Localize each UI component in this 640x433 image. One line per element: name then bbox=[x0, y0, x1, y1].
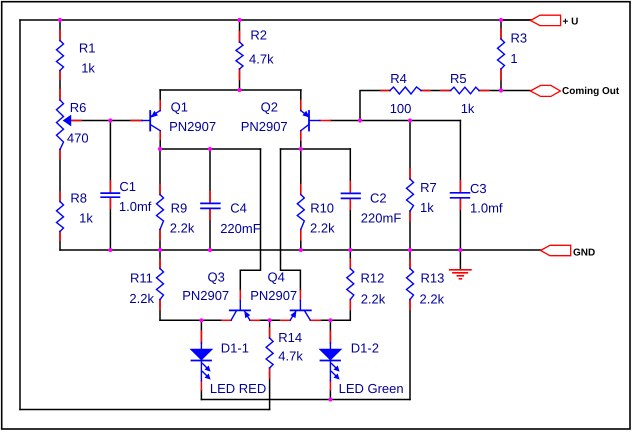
svg-text:2.2k: 2.2k bbox=[170, 221, 195, 236]
pin C1.1 bbox=[109, 181, 111, 192]
node D1-1 top bbox=[199, 318, 203, 322]
node C4 top bbox=[208, 147, 212, 151]
wire R4 feed corner x=360 bbox=[360, 91, 390, 121]
resistor R3 body bbox=[498, 39, 505, 69]
svg-text:220mF: 220mF bbox=[361, 211, 402, 226]
wire Q1-Q2 collector rail y=90 bbox=[160, 89, 301, 91]
resistor R1 body bbox=[57, 41, 64, 71]
wire Q1 emitter top x=160.2 bbox=[159, 90, 161, 111]
wire bottom R14 return y=409.5 bbox=[20, 409, 270, 411]
svg-text:R7: R7 bbox=[420, 180, 437, 195]
svg-text:2.2k: 2.2k bbox=[129, 291, 154, 306]
svg-text:C1: C1 bbox=[119, 179, 136, 194]
blue component bodies bbox=[57, 39, 505, 381]
resistor R7 body bbox=[407, 179, 414, 211]
node R9 top bbox=[158, 147, 162, 151]
svg-text:1.0mf: 1.0mf bbox=[119, 199, 152, 214]
wire R12 bottom x=350.3 bbox=[349, 300, 351, 321]
pin Q2.c bbox=[300, 131, 302, 140]
svg-text:LED Green: LED Green bbox=[339, 381, 404, 396]
pin D1-1.k bbox=[200, 381, 202, 390]
resistor R11 body bbox=[157, 269, 164, 300]
pin D1-1.a bbox=[200, 331, 202, 343]
wire R6-R8 link x=60 bbox=[59, 150, 61, 202]
pin Q3.left bbox=[222, 319, 231, 321]
pin Q2.base bbox=[320, 120, 330, 122]
wire R2 bottom pin x=239.5 bbox=[239, 69, 241, 90]
pin R14.2 bbox=[269, 368, 271, 378]
wire C4 top x=210 bbox=[209, 149, 211, 203]
svg-text:220mF: 220mF bbox=[220, 221, 261, 236]
svg-text:1k: 1k bbox=[420, 200, 434, 215]
pin R13.2 bbox=[409, 300, 411, 310]
pin C4.2 bbox=[209, 209, 211, 219]
pin Q1.base bbox=[131, 120, 142, 122]
svg-text:Q4: Q4 bbox=[268, 270, 285, 285]
pin R3.1 bbox=[500, 29, 502, 39]
svg-text:PN2907: PN2907 bbox=[169, 119, 216, 134]
wire C3 bottom x=460.4 bbox=[459, 199, 461, 250]
pin R8.2 bbox=[59, 232, 61, 241]
wire R11 bottom x=160 bbox=[159, 300, 161, 321]
ground symbol bbox=[450, 270, 471, 279]
resistor R10 body bbox=[297, 195, 304, 230]
pin C2.1 bbox=[349, 181, 351, 192]
transistor Q3 bbox=[230, 301, 250, 321]
wire R11 top x=160 bbox=[159, 250, 161, 269]
node gnd bbox=[458, 248, 462, 252]
wire LED bottom rail y=399.5 bbox=[201, 399, 410, 401]
node R10 bottom bbox=[299, 248, 303, 252]
pin R9.2 bbox=[159, 230, 161, 241]
svg-text:R1: R1 bbox=[79, 40, 96, 55]
node R7 bottom bbox=[408, 248, 412, 252]
wire R1-R6 link x=60 bbox=[59, 71, 61, 101]
wire R2 top pin x=239.5 bbox=[239, 20, 241, 42]
pin Q1.e bbox=[159, 101, 161, 111]
svg-text:1: 1 bbox=[510, 51, 517, 66]
connector GND bbox=[541, 245, 571, 255]
wire Q2 base to node y=120.5 bbox=[330, 120, 460, 122]
pin R10.2 bbox=[300, 230, 302, 241]
svg-text:Q2: Q2 bbox=[261, 100, 278, 115]
pin R3.2 bbox=[500, 69, 502, 80]
pin Q4.base bbox=[299, 291, 301, 301]
svg-text:R2: R2 bbox=[250, 28, 267, 43]
svg-text:100: 100 bbox=[390, 101, 412, 116]
svg-text:1k: 1k bbox=[79, 210, 93, 225]
wire D1-2 anode x=330.4 bbox=[329, 320, 331, 343]
wire emitter rail y=320.3 bbox=[160, 319, 222, 321]
svg-text:1k: 1k bbox=[81, 60, 95, 75]
pin R4.1 bbox=[381, 90, 390, 92]
svg-text:4.7k: 4.7k bbox=[278, 349, 303, 364]
wire Q4-D1-2 segment y=320.3 bbox=[321, 319, 351, 321]
pin R13.1 bbox=[409, 259, 411, 269]
pin R2.2 bbox=[239, 69, 241, 80]
svg-text:R11: R11 bbox=[130, 270, 153, 285]
wire R10 top x=300.8 bbox=[300, 149, 302, 195]
resistor R12 body bbox=[347, 269, 354, 300]
pin C1.2 bbox=[109, 198, 111, 209]
svg-text:Q1: Q1 bbox=[171, 100, 188, 115]
wire R5 to coming-out node y=90.5 bbox=[479, 90, 530, 92]
pin Q2.e bbox=[300, 101, 302, 111]
wire Q2 group rail y=149 bbox=[281, 148, 351, 150]
pin R8.1 bbox=[59, 192, 61, 202]
svg-text:D1-2: D1-2 bbox=[351, 340, 379, 355]
svg-text:Q3: Q3 bbox=[208, 270, 225, 285]
node R4 tap bbox=[358, 118, 362, 122]
diode D1-1 bbox=[191, 343, 211, 381]
node D1-2 top bbox=[328, 318, 332, 322]
pin R6.2 bbox=[59, 150, 61, 160]
wire D1-2 cathode x=330.4 bbox=[329, 390, 331, 400]
svg-text:1.0mf: 1.0mf bbox=[470, 200, 503, 215]
svg-text:2.2k: 2.2k bbox=[420, 291, 445, 306]
wire R13 top x=410 bbox=[409, 250, 411, 269]
node R2 bottom bbox=[237, 88, 241, 92]
pin R5.2 bbox=[479, 90, 489, 92]
node R2 top bbox=[237, 18, 241, 22]
svg-text:C3: C3 bbox=[470, 181, 487, 196]
pin R6.1 bbox=[59, 90, 61, 101]
svg-text:470: 470 bbox=[67, 130, 89, 145]
node D1-2 bottom bbox=[328, 397, 332, 401]
pin Q1.c bbox=[159, 131, 161, 140]
pin C4.1 bbox=[209, 191, 211, 202]
wire gnd rail y=250 bbox=[60, 249, 541, 251]
wire R6 wiper to Q1 base y=120.5 bbox=[71, 120, 143, 122]
wire Q1 collector bottom x=160.2 bbox=[159, 131, 161, 149]
wire Q2 emitter top x=300.8 bbox=[300, 90, 302, 111]
pin R7.2 bbox=[409, 211, 411, 221]
svg-text:R12: R12 bbox=[361, 271, 385, 286]
node R1 top bbox=[58, 18, 62, 22]
resistor R8 body bbox=[57, 202, 64, 232]
wire +U connector stub y=20 bbox=[501, 19, 531, 21]
pin C3.2 bbox=[459, 199, 461, 210]
pin R9.1 bbox=[159, 185, 161, 195]
wire R12 top x=350.3 bbox=[349, 250, 351, 269]
node R14 top bbox=[268, 318, 272, 322]
wire R8 bottom to gnd rail x=60 bbox=[59, 232, 61, 251]
pin Q3.base bbox=[239, 291, 241, 301]
pin Q4.right bbox=[310, 319, 320, 321]
svg-text:GND: GND bbox=[573, 247, 595, 258]
node C2 bottom bbox=[348, 248, 352, 252]
svg-text:Coming Out: Coming Out bbox=[562, 86, 620, 97]
wire C1 bottom x=110.4 bbox=[109, 198, 111, 250]
wire C2 top x=350.3 bbox=[349, 149, 351, 193]
pin R1.2 bbox=[59, 71, 61, 80]
svg-text:+ U: + U bbox=[563, 17, 579, 28]
node C1 top bbox=[108, 118, 112, 122]
resistor R14 body bbox=[266, 338, 273, 368]
svg-text:4.7k: 4.7k bbox=[249, 52, 274, 67]
wire R3 top pin x=501 bbox=[500, 20, 502, 39]
capacitor C2 plates bbox=[342, 193, 361, 198]
wire left feedback loop x=20 bbox=[19, 20, 21, 410]
wire ground symbol stem x=460.4 bbox=[459, 250, 461, 269]
pin R14.1 bbox=[269, 328, 271, 338]
node R3 top bbox=[499, 18, 503, 22]
red pin overlays bbox=[60, 29, 501, 390]
pin R4.2 bbox=[421, 90, 430, 92]
connector +U bbox=[531, 15, 561, 25]
wire C3 top x=460.4 bbox=[459, 121, 461, 192]
svg-text:C4: C4 bbox=[230, 201, 247, 216]
svg-text:R10: R10 bbox=[310, 201, 334, 216]
pin R5.1 bbox=[441, 90, 451, 92]
pin C3.1 bbox=[459, 181, 461, 192]
pin R11.1 bbox=[159, 259, 161, 269]
resistor R6 body (pot) bbox=[57, 100, 64, 150]
wire C1 top x=110.4 bbox=[109, 121, 111, 193]
wire C4 bottom x=210 bbox=[209, 209, 211, 250]
wire R10 bottom x=300.8 bbox=[300, 230, 302, 251]
transistor Q1 bbox=[142, 111, 160, 131]
svg-text:D1-1: D1-1 bbox=[221, 340, 249, 355]
connector Coming Out bbox=[530, 85, 560, 96]
svg-text:R4: R4 bbox=[390, 71, 407, 86]
svg-text:PN2907: PN2907 bbox=[241, 119, 288, 134]
svg-text:PN2907: PN2907 bbox=[250, 288, 297, 303]
svg-text:R8: R8 bbox=[70, 191, 87, 206]
resistor R13 body bbox=[407, 269, 414, 300]
wire R9 top x=160 bbox=[159, 149, 161, 195]
node coming out bbox=[499, 88, 503, 92]
transistor Q4 bbox=[290, 301, 311, 321]
node R7 top bbox=[408, 118, 412, 122]
svg-text:R6: R6 bbox=[70, 100, 87, 115]
wire Q2 collector bottom x=300.8 bbox=[300, 131, 302, 149]
svg-text:PN2907: PN2907 bbox=[182, 288, 229, 303]
pin Q3.right bbox=[250, 319, 260, 321]
resistor R2 body bbox=[236, 42, 243, 69]
wire R3 bottom pin x=501 bbox=[500, 69, 502, 91]
pin D1-2.k bbox=[329, 381, 331, 390]
wire Q1 group rail y=149 bbox=[160, 148, 261, 150]
resistor R5 body bbox=[451, 87, 480, 94]
wire Q4 base feed jog x=280.5 bbox=[281, 149, 301, 291]
svg-text:2.2k: 2.2k bbox=[310, 221, 335, 236]
node C4 bottom bbox=[208, 248, 212, 252]
pin D1-2.a bbox=[329, 331, 331, 343]
node R10 top bbox=[299, 147, 303, 151]
pin R12.1 bbox=[349, 259, 351, 269]
svg-text:R9: R9 bbox=[171, 201, 188, 216]
pin R12.2 bbox=[349, 300, 351, 310]
node R9 bottom bbox=[158, 248, 162, 252]
svg-text:C2: C2 bbox=[370, 191, 387, 206]
pin R6.wiper bbox=[71, 120, 82, 122]
capacitor C1 plates bbox=[101, 193, 119, 197]
capacitor C3 plates bbox=[451, 193, 470, 198]
wire R4-R5 link y=90.5 bbox=[421, 90, 451, 92]
svg-text:R5: R5 bbox=[450, 71, 467, 86]
svg-text:LED RED: LED RED bbox=[210, 381, 266, 396]
wire R7 top x=410 bbox=[409, 121, 411, 180]
wire D1-1 anode x=201.4 bbox=[200, 320, 202, 343]
resistor R4 body bbox=[390, 87, 421, 94]
pin R1.1 bbox=[59, 31, 61, 41]
pin R11.2 bbox=[159, 300, 161, 310]
resistor R6 wiper arrow bbox=[64, 116, 71, 126]
wire R9 bottom x=160 bbox=[159, 230, 161, 251]
wire top rail y=20 bbox=[20, 19, 531, 21]
pin R7.1 bbox=[409, 169, 411, 179]
svg-text:R3: R3 bbox=[511, 30, 528, 45]
svg-text:2.2k: 2.2k bbox=[361, 291, 386, 306]
resistor R9 body bbox=[157, 195, 164, 230]
wire R14 bottom x=269.6 bbox=[269, 368, 271, 410]
svg-text:R14: R14 bbox=[278, 330, 302, 345]
pin C2.2 bbox=[349, 199, 351, 209]
wire C2 bottom x=350.3 bbox=[349, 199, 351, 250]
pin R2.1 bbox=[239, 32, 241, 43]
wire Q3-R14 segment y=320.3 bbox=[260, 319, 281, 321]
transistor Q2 bbox=[301, 111, 320, 131]
pin R10.1 bbox=[300, 185, 302, 195]
wire R13 bottom long x=410 bbox=[409, 300, 411, 400]
capacitor C4 plates bbox=[201, 203, 220, 208]
svg-text:1k: 1k bbox=[461, 101, 475, 116]
pin Q4.left bbox=[280, 319, 290, 321]
wire R1 branch upper x=60 bbox=[59, 20, 61, 41]
wire R7 bottom x=410 bbox=[409, 211, 411, 250]
node C1 bottom bbox=[108, 248, 112, 252]
diode D1-2 bbox=[320, 343, 340, 381]
wire Q3 base feed jog x=260.5 bbox=[240, 149, 260, 291]
wire R14 top x=269.6 bbox=[269, 320, 271, 338]
wire D1-1 cathode x=201.4 bbox=[200, 390, 202, 400]
svg-text:R13: R13 bbox=[421, 271, 445, 286]
